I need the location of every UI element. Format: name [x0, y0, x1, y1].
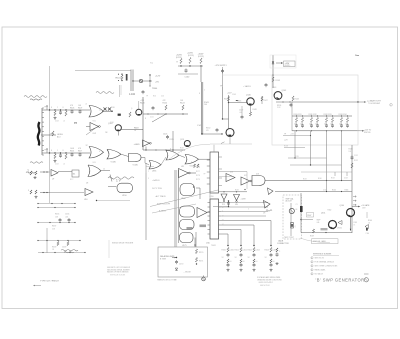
signal label 4	[157, 204, 171, 206]
label u19u20	[222, 204, 238, 206]
node junction	[201, 133, 203, 135]
svg-text:+5V: +5V	[155, 82, 159, 84]
label Q143	[282, 90, 287, 92]
svg-text:FOR GENERAL DETAILS: FOR GENERAL DETAILS	[315, 261, 335, 264]
bank bus top	[292, 115, 352, 117]
svg-text:SWP CAL LABEL: SWP CAL LABEL	[313, 240, 326, 243]
wire	[145, 147, 147, 151]
svg-text:C113: C113	[55, 164, 59, 166]
svg-text:R167: R167	[307, 215, 311, 217]
inverter U20	[234, 189, 246, 202]
svg-text:10: 10	[273, 261, 275, 263]
node junction	[300, 219, 301, 220]
bank resistor R138	[346, 115, 348, 122]
svg-text:U18: U18	[256, 174, 259, 176]
wire	[143, 149, 185, 150]
label speckle m1	[105, 107, 115, 134]
wire	[222, 87, 224, 119]
pin numbers ic	[222, 203, 224, 227]
wire	[42, 152, 90, 153]
svg-text:U8: U8	[86, 183, 88, 185]
wire	[86, 126, 90, 128]
svg-text:66: 66	[296, 209, 298, 211]
svg-text:R162: R162	[328, 210, 332, 212]
note text block	[107, 266, 131, 277]
svg-text:R148: R148	[253, 109, 257, 111]
resistor string 1	[222, 248, 234, 268]
svg-text:+ALT TRACE: +ALT TRACE	[155, 195, 167, 198]
wire	[178, 73, 198, 75]
svg-text:R184: R184	[235, 189, 239, 191]
resistor R133	[351, 163, 353, 168]
svg-text:C147: C147	[239, 110, 243, 112]
wire	[130, 70, 132, 92]
annotation plus1 vref	[108, 175, 134, 183]
arrow to +12V	[276, 62, 283, 64]
svg-text:SEE OTHER CONNECTIONS: SEE OTHER CONNECTIONS	[315, 266, 339, 268]
wire	[141, 158, 149, 165]
capacitor C142	[221, 69, 224, 73]
connector J102 pin	[126, 74, 128, 81]
or-gate U1B	[89, 147, 104, 159]
svg-text:U11: U11	[181, 166, 184, 168]
label U15	[206, 243, 216, 247]
svg-text:C125: C125	[163, 134, 167, 136]
svg-text:C170: C170	[179, 264, 183, 266]
resistor R171	[195, 258, 203, 263]
or-gate U6A	[166, 151, 179, 161]
label U21	[0, 0, 1, 1]
label type	[40, 281, 60, 283]
svg-text:+12V: +12V	[155, 76, 161, 78]
label trig col	[148, 171, 149, 180]
label Q164	[340, 205, 344, 207]
wire	[139, 90, 145, 150]
or-gate U1A	[89, 106, 104, 118]
svg-text:6: 6	[170, 149, 171, 151]
label +SAWTOOTH	[243, 85, 251, 88]
resistor R146	[236, 101, 241, 103]
wire	[290, 203, 292, 236]
label dly	[230, 172, 259, 178]
label Q118	[108, 123, 112, 125]
svg-text:R143: R143	[276, 80, 281, 82]
svg-text:R124: R124	[180, 103, 185, 105]
svg-text:U16: U16	[230, 172, 233, 174]
wire	[41, 108, 43, 155]
svg-text:CONNECTOR: CONNECTOR	[277, 243, 289, 245]
svg-text:SWP BD: SWP BD	[364, 132, 371, 134]
svg-text:U10: U10	[84, 199, 87, 201]
node dots y150	[155, 149, 166, 150]
wire	[250, 106, 252, 113]
wire	[101, 169, 110, 171]
capacitor C125	[166, 135, 169, 139]
svg-text:R164: R164	[332, 190, 336, 192]
resistor R161	[189, 58, 191, 64]
wire	[221, 233, 228, 235]
faint enclosure	[270, 55, 296, 68]
label TP	[284, 134, 295, 136]
svg-text:R147: R147	[264, 100, 268, 102]
buffer U11	[179, 169, 197, 178]
svg-text:SEE NOTES 1: SEE NOTES 1	[260, 285, 270, 287]
label speckle a4	[55, 164, 65, 166]
svg-text:R117: R117	[78, 151, 82, 153]
label -12V	[284, 140, 288, 142]
ground	[53, 160, 56, 163]
svg-text:+GATE B: +GATE B	[152, 179, 160, 182]
bank resistor R130	[295, 115, 297, 122]
reference note 5	[311, 273, 324, 276]
bank labels 3	[324, 114, 332, 116]
wire	[149, 74, 150, 86]
test point TP C	[46, 148, 47, 153]
ic pins right	[219, 203, 222, 235]
diag wire	[86, 127, 97, 135]
resistor R124	[182, 105, 184, 110]
svg-text:12: 12	[99, 110, 101, 112]
reference header	[313, 254, 339, 256]
wire faint	[108, 240, 110, 258]
svg-text:.001: .001	[65, 217, 68, 219]
transistor Q118	[115, 114, 121, 136]
bank out label	[357, 130, 372, 134]
wire	[200, 82, 202, 134]
svg-text:100: 100	[204, 104, 207, 106]
svg-text:R107: R107	[78, 108, 82, 110]
transistor Q128	[184, 141, 190, 147]
or-gate U4A	[107, 150, 121, 160]
svg-text:R165: R165	[345, 190, 349, 192]
wire	[284, 147, 305, 149]
ic U15	[210, 199, 219, 239]
svg-text:.01: .01	[63, 164, 65, 166]
flipflop U12	[180, 184, 195, 196]
label bottom strings	[0, 0, 1, 1]
svg-text:R135: R135	[55, 214, 59, 216]
label test points	[284, 237, 294, 239]
svg-text:C143: C143	[272, 87, 276, 89]
diode CR165	[268, 188, 274, 195]
switch wafer row 3	[37, 222, 75, 223]
svg-text:10: 10	[222, 207, 224, 209]
delay box	[158, 247, 208, 277]
svg-text:φφ: φφ	[74, 122, 78, 125]
svg-text:R166: R166	[368, 220, 372, 222]
diode CR170	[175, 268, 177, 270]
svg-text:WITH BLUE OUTLINE: WITH BLUE OUTLINE	[110, 275, 125, 277]
buffer U10	[85, 189, 93, 196]
bus wire	[178, 170, 180, 243]
ground	[226, 269, 229, 272]
bank cap C130	[295, 124, 304, 128]
wire	[265, 180, 352, 181]
annotation x quarter W	[26, 172, 35, 173]
label misc	[232, 94, 236, 96]
svg-text:OUT: OUT	[362, 207, 366, 209]
transistor Q146	[247, 98, 254, 105]
arrow	[33, 285, 41, 287]
wire	[161, 157, 166, 165]
note voltages	[257, 276, 282, 287]
svg-text:13: 13	[222, 220, 224, 222]
wire	[172, 257, 177, 259]
buffer U21	[197, 208, 207, 228]
svg-text:R133 R134: R133 R134	[339, 114, 347, 116]
wire	[221, 224, 254, 226]
svg-text:C163: C163	[323, 189, 327, 191]
label S15 side	[196, 167, 200, 181]
svg-text:.01: .01	[63, 121, 65, 123]
resistor R145	[224, 97, 230, 102]
svg-text:R177: R177	[196, 171, 200, 173]
svg-text:R139: R139	[295, 156, 299, 158]
svg-text:R171: R171	[199, 261, 203, 263]
label +12V	[155, 76, 161, 78]
node junction	[228, 102, 229, 103]
switch labels 2	[52, 226, 56, 231]
resistor network B	[30, 190, 37, 194]
label 2N3904	[57, 134, 63, 138]
svg-text:C151: C151	[243, 250, 247, 252]
resistor tick2	[318, 178, 322, 180]
wire	[221, 215, 266, 217]
label U4A	[110, 160, 116, 164]
capacitor C150	[216, 128, 219, 132]
signal label 5	[159, 211, 166, 213]
svg-text:12: 12	[103, 169, 105, 171]
resistor string 3	[248, 248, 260, 268]
node junction	[272, 74, 274, 76]
wire	[120, 85, 122, 97]
bank labels b 3	[324, 124, 333, 126]
svg-text:TYPE 547 / RM547: TYPE 547 / RM547	[40, 281, 60, 283]
gate U5	[149, 161, 161, 170]
connector P101 bar	[38, 122, 40, 146]
resistor string 2	[235, 248, 247, 268]
wire faint	[210, 143, 252, 145]
wire	[294, 131, 295, 159]
label speckle row	[28, 171, 30, 192]
wire	[178, 65, 203, 66]
diag wire	[152, 204, 196, 213]
capacitor C103	[59, 111, 62, 115]
wire	[283, 135, 311, 137]
wire	[108, 186, 117, 188]
svg-text:R130 R131: R130 R131	[294, 114, 302, 116]
wire	[229, 102, 247, 104]
label gate in	[134, 143, 141, 146]
svg-text:TP: TP	[204, 174, 206, 176]
bank resistor R133	[340, 115, 342, 122]
svg-text:.001: .001	[239, 112, 242, 114]
wire	[50, 192, 85, 194]
label diamond	[263, 213, 266, 215]
label speckle r2	[323, 189, 327, 191]
wire	[202, 82, 204, 134]
label row A2	[70, 105, 82, 107]
wire	[228, 95, 230, 129]
label R167	[307, 213, 314, 218]
capacitor C115	[71, 153, 82, 157]
label R141	[204, 102, 210, 106]
switch labels	[55, 214, 69, 219]
label pin	[86, 145, 88, 147]
wire	[121, 154, 129, 156]
capacitor C147	[239, 110, 244, 120]
svg-text:10: 10	[243, 261, 245, 263]
bank cap C133	[340, 124, 349, 128]
svg-text:C152: C152	[256, 250, 260, 252]
svg-text:R101: R101	[116, 78, 122, 80]
svg-text:+ SAW B: + SAW B	[243, 85, 251, 88]
resistor R170	[195, 249, 203, 254]
resistor R160	[177, 59, 183, 64]
potentiometer R112	[51, 131, 55, 136]
label row C2	[70, 148, 82, 150]
svg-text:R132 R133: R132 R133	[324, 114, 332, 116]
signal label 3	[155, 195, 167, 198]
switch pins right	[219, 157, 223, 186]
label speckle a3	[55, 121, 65, 123]
svg-text:TP: TP	[146, 96, 148, 98]
svg-text:B TIME: B TIME	[160, 258, 167, 260]
reference note 2	[311, 261, 335, 264]
svg-text:R128: R128	[180, 148, 184, 150]
reference note 4	[311, 269, 326, 272]
ground	[34, 196, 37, 199]
svg-text:R137: R137	[52, 226, 56, 228]
label speckle a2	[44, 150, 65, 153]
wire	[221, 229, 241, 231]
resistor R138	[57, 242, 69, 246]
buffer U17	[241, 177, 252, 185]
label timing	[157, 280, 177, 282]
label speckle top	[199, 90, 206, 96]
svg-text:C108: C108	[110, 122, 114, 124]
wire faint	[301, 171, 352, 173]
svg-text:R178: R178	[196, 175, 200, 177]
svg-text:NO VALUE: NO VALUE	[315, 273, 324, 276]
resistor R103a	[54, 111, 56, 116]
svg-text:U19: U19	[222, 204, 225, 206]
wire	[221, 211, 268, 213]
label left	[296, 204, 298, 211]
capacitor C105	[71, 110, 82, 114]
svg-text:C135: C135	[65, 214, 69, 216]
wire	[223, 74, 273, 76]
svg-text:TP: TP	[44, 107, 46, 109]
bank labels 1	[294, 114, 302, 116]
label U4B	[132, 163, 138, 167]
svg-text:C132: C132	[354, 155, 358, 157]
svg-text:R10: R10	[153, 96, 156, 98]
label +12V col	[227, 93, 232, 95]
svg-text:12: 12	[86, 145, 88, 147]
svg-text:+12V SUPPLY: +12V SUPPLY	[215, 65, 228, 67]
svg-text:U160: U160	[181, 198, 186, 200]
svg-text:C139: C139	[62, 247, 66, 249]
wire	[240, 230, 242, 247]
wire	[58, 171, 72, 173]
wire	[366, 212, 368, 218]
svg-text:R132: R132	[354, 160, 358, 162]
wire	[41, 134, 56, 136]
label q120 area	[131, 108, 154, 120]
resistor R166	[354, 220, 372, 235]
svg-text:R169: R169	[310, 236, 314, 238]
or-gate U8	[88, 165, 101, 177]
label pin	[86, 104, 87, 106]
coax shield symbol	[139, 79, 142, 82]
resistor R122	[165, 105, 167, 110]
capacitor C121	[152, 106, 155, 110]
capacitor C132	[351, 155, 358, 162]
svg-text:(DCPL): (DCPL)	[198, 56, 204, 58]
wire	[301, 219, 313, 221]
bank resistor R135	[301, 115, 303, 122]
label R106 top	[163, 100, 168, 104]
resistor R144	[292, 96, 299, 101]
switch wafer row 5	[38, 252, 86, 253]
buffer U2	[90, 123, 100, 131]
switch labels 3	[52, 247, 66, 252]
label TRIG	[152, 88, 158, 90]
capacitor C143	[265, 83, 268, 87]
wire	[132, 70, 134, 92]
svg-text:R152: R152	[248, 250, 252, 252]
flipflop U9	[117, 183, 133, 192]
label tick pair 1	[331, 172, 335, 180]
bank bus bottom	[292, 130, 357, 131]
svg-text:TEST POINT: TEST POINT	[284, 237, 294, 239]
switch wafer row 1	[37, 203, 75, 204]
label phi	[74, 122, 78, 125]
resistor R131 grp	[349, 149, 353, 153]
wire	[143, 113, 188, 114]
capacitor C136	[59, 218, 71, 222]
svg-text:+GATE: +GATE	[134, 143, 141, 146]
svg-text:CR162: CR162	[337, 228, 342, 230]
label swp cal	[317, 220, 328, 231]
label R103 top	[140, 96, 164, 105]
svg-text:(DCPL): (DCPL)	[188, 55, 194, 57]
signal label 2	[152, 188, 162, 190]
svg-text:TP: TP	[44, 150, 46, 152]
svg-text:SINGLE MODE TRIGGER: SINGLE MODE TRIGGER	[112, 243, 134, 245]
nand U13b	[180, 220, 195, 230]
capacitor C124	[290, 103, 293, 107]
resistor R114	[65, 154, 67, 159]
ground	[33, 176, 36, 179]
svg-text:R150: R150	[206, 128, 210, 130]
label Q146	[246, 95, 251, 97]
wire	[227, 234, 229, 246]
wire	[326, 131, 328, 192]
node dots y114	[147, 113, 158, 114]
svg-text:4: 4	[99, 151, 100, 153]
wire	[196, 188, 200, 199]
reference note 1	[311, 257, 325, 260]
svg-text:PANEL LABEL: PANEL LABEL	[315, 269, 326, 272]
wire	[276, 101, 359, 102]
svg-text:C166: C166	[366, 233, 370, 235]
svg-text:DLY'D TRIG: DLY'D TRIG	[152, 188, 162, 190]
svg-text:R160: R160	[318, 178, 322, 180]
svg-text:R120: R120	[140, 103, 145, 105]
wire	[270, 221, 272, 247]
